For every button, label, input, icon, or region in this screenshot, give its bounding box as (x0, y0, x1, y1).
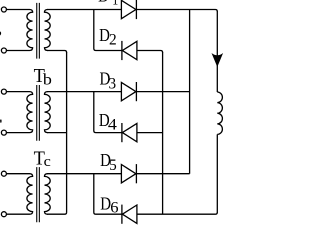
diode D1 (121, 0, 135, 18)
wire D3 cathode to positive rail (136, 91, 189, 93)
wire T3 secondary bottom lead to neutral (47, 212, 67, 214)
transformer T2 primary terminal bottom (1, 130, 6, 135)
svg-text:b: b (43, 71, 52, 88)
wire D4 anode to negative rail (137, 132, 163, 134)
svg-text:4: 4 (108, 117, 117, 134)
diode D6 (122, 205, 136, 223)
wire T2 secondary bottom lead to neutral (47, 132, 67, 134)
wire drop phase c to D6 (94, 174, 122, 215)
wire positive rail (189, 10, 191, 174)
wire D5 cathode to positive rail end (136, 173, 189, 175)
wire D2 anode to negative rail (137, 51, 163, 53)
wire load branch upper (216, 11, 218, 92)
wire drop phase a to D2 (94, 10, 122, 51)
clipped fragment at left edge row1-2 gap (0, 32, 1, 35)
svg-text:5: 5 (109, 157, 117, 174)
wire T1 secondary bottom lead to neutral (47, 51, 67, 53)
wire D1 cathode to top-right corner (136, 10, 217, 12)
transformer T2 primary terminal top (1, 89, 6, 94)
svg-text:3: 3 (109, 76, 117, 93)
diode D5 cathode bar (135, 164, 137, 183)
wire neutral vertical (66, 52, 68, 212)
transformer T2 core (37, 85, 40, 141)
transformer T2 secondary winding (45, 92, 51, 133)
svg-text:c: c (44, 154, 52, 170)
svg-text:D: D (98, 0, 109, 6)
wire drop phase b to D4 (94, 92, 122, 133)
wire load branch lower (216, 134, 218, 212)
transformer T1 core (37, 3, 40, 59)
inductor load (217, 92, 222, 134)
diode D2 (122, 41, 136, 59)
transformer T3 core (37, 167, 40, 222)
transformer T1 primary terminal bottom (1, 48, 6, 53)
transformer T1 primary terminal top (1, 7, 6, 12)
diode D6 cathode bar (121, 205, 123, 224)
diode D2 cathode bar (121, 41, 123, 60)
wire phase b (47, 91, 121, 93)
transformer T3 secondary winding (45, 174, 51, 215)
transformer T3 primary terminal top (1, 171, 6, 176)
transformer T3 primary winding (6, 174, 32, 215)
diode D3 cathode bar (135, 82, 137, 101)
diode D4 cathode bar (121, 123, 123, 142)
svg-text:6: 6 (110, 200, 118, 217)
diode D5 (121, 165, 135, 183)
diode D4 (122, 123, 136, 141)
transformer T2 primary winding (6, 92, 32, 133)
transformer T3 primary terminal bottom (1, 212, 6, 217)
diode D3 (121, 82, 135, 100)
arrow current direction (212, 53, 224, 67)
wire D6 anode / bottom return to load (137, 212, 217, 214)
wire negative rail (162, 52, 164, 214)
svg-text:1: 1 (112, 0, 118, 8)
diode D1 cathode bar (135, 0, 137, 19)
transformer T1 primary winding (6, 10, 32, 51)
wire phase a (47, 9, 121, 11)
clipped fragment at left edge row3-4 gap (0, 120, 1, 122)
transformer T1 secondary winding (45, 10, 51, 51)
wire phase c (47, 173, 121, 175)
svg-text:2: 2 (109, 32, 117, 49)
